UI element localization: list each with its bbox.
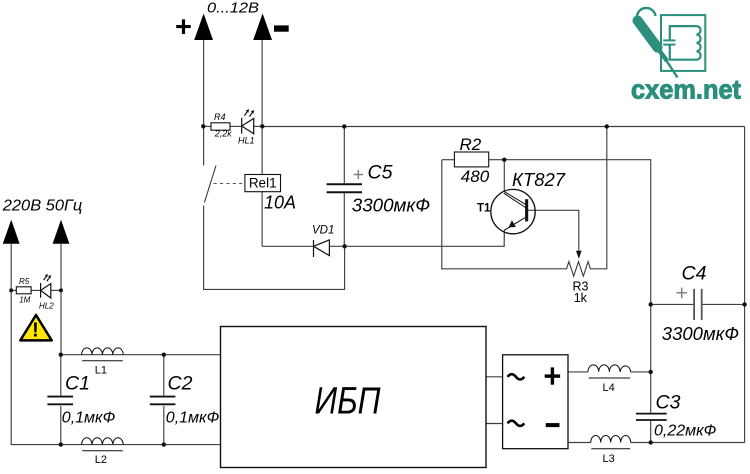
label L3: [603, 453, 615, 465]
label C4: [682, 263, 707, 285]
wire R2 right lead to collector node: [489, 159, 505, 161]
wire HL2 right lead: [51, 289, 61, 291]
bridge plus symbol: [545, 367, 560, 384]
svg-text:ИБП: ИБП: [315, 381, 381, 423]
wire R2 left lead: [442, 159, 455, 161]
terminal arrow minus 0...12V: [253, 14, 272, 41]
node dot C2 top: [162, 353, 166, 357]
wire bridge minus output to L3: [568, 442, 591, 444]
svg-text:С4: С4: [682, 263, 707, 285]
wire collector vertical: [503, 160, 505, 192]
inductor L4: [588, 365, 631, 378]
svg-text:0,1мкФ: 0,1мкФ: [166, 410, 220, 427]
svg-text:С1: С1: [65, 373, 90, 395]
bridge minus symbol: [546, 423, 560, 427]
wire bridge plus output to L4: [568, 371, 588, 373]
svg-text:0...12В: 0...12В: [207, 0, 259, 16]
node dot C1 bottom: [59, 442, 63, 446]
wire C4 left lead: [651, 303, 694, 305]
wire L3 to C3 node: [631, 442, 651, 444]
svg-text:С2: С2: [168, 373, 193, 395]
plus sign 0...12V: [175, 11, 192, 43]
node dot top rail R3: [605, 124, 609, 128]
svg-text:L2: L2: [95, 454, 107, 466]
label L4: [603, 382, 615, 394]
label 220V 50Hz: [2, 197, 83, 214]
svg-text:0,22мкФ: 0,22мкФ: [654, 422, 717, 439]
wire C2 vertical top: [163, 355, 165, 396]
wire switch bottom to VD1 node loop: [204, 206, 345, 290]
label R5: [19, 277, 30, 286]
svg-text:HL2: HL2: [39, 302, 54, 311]
svg-text:480: 480: [461, 167, 490, 186]
wire relay coil top lead: [261, 127, 263, 175]
wire VD1 anode rail to emitter: [329, 240, 504, 247]
wire C4 node to L4 node: [650, 304, 652, 372]
wire C5 bottom lead: [343, 193, 345, 246]
node dot C2 bottom: [162, 442, 166, 446]
wire C3 bottom lead: [650, 420, 652, 442]
label L1: [95, 365, 107, 377]
wire top rail HL1 to right edge: [262, 126, 744, 128]
wire C2 vertical bottom: [163, 406, 165, 445]
label VD1: [312, 225, 334, 237]
C5 polarity plus: [354, 170, 363, 179]
mains arrow left: [3, 220, 20, 244]
label Rel1: [249, 176, 277, 191]
wire C1 vertical bottom: [60, 406, 62, 445]
node dot C5 top: [342, 124, 346, 128]
node dot HL1 right: [260, 124, 264, 128]
value R5 1M: [19, 295, 30, 304]
bridge AC symbol top: [508, 374, 525, 379]
value C5 3300uF: [352, 194, 430, 215]
warning triangle: [20, 315, 51, 342]
wire collector node to C4 corner: [504, 160, 650, 305]
relay Rel1 box: [245, 175, 281, 192]
inductor L3: [591, 436, 631, 449]
svg-text:С3: С3: [656, 391, 681, 413]
terminal arrow plus 0...12V: [194, 14, 213, 41]
svg-text:220В 50Гц: 220В 50Гц: [2, 197, 83, 214]
wire VD1 cathode lead: [262, 245, 313, 247]
node dot VD1 right: [342, 244, 346, 248]
diode VD1: [314, 240, 330, 257]
wire HL2 node to L1 node: [60, 290, 62, 354]
wire R4 to HL1: [230, 125, 242, 127]
svg-text:3300мкФ: 3300мкФ: [352, 194, 430, 215]
resistor R2: [454, 152, 488, 167]
LED HL2: [41, 274, 52, 298]
inductor L2: [82, 438, 124, 451]
wire - terminal lead: [261, 40, 263, 127]
value C1 0.1uF: [62, 410, 116, 427]
dashed link relay to switch: [214, 183, 245, 185]
node dot R4 left: [201, 124, 205, 128]
wire UPS to bridge stub top: [486, 376, 503, 378]
wire switch top lead: [203, 127, 205, 166]
value relay 10A: [264, 193, 296, 213]
capacitor C3 plates: [636, 414, 667, 420]
minus sign 0...12V: [274, 25, 289, 31]
svg-text:1М: 1М: [19, 295, 30, 304]
wire + terminal lead: [203, 40, 205, 127]
wire L4 to C3 node: [631, 371, 651, 373]
node dot R5 left: [9, 288, 13, 292]
node dot C3 bottom: [649, 440, 653, 444]
svg-text:С5: С5: [368, 162, 393, 184]
label L2: [95, 454, 107, 466]
transistor T1 KT827: [491, 189, 535, 239]
label C2: [168, 373, 193, 395]
cxem.net logo graphic: [637, 8, 705, 78]
capacitor C5 plates: [327, 184, 362, 192]
capacitor C1 plates: [47, 397, 73, 405]
value C3 0.22uF: [654, 422, 717, 439]
inductor L1: [82, 348, 124, 361]
node dot C4 right: [742, 302, 746, 306]
value R3 1k: [574, 291, 588, 305]
wire right edge vertical: [744, 127, 746, 443]
label T1: [477, 203, 491, 215]
label KT827: [512, 169, 566, 190]
label R4: [214, 112, 226, 122]
node dot L1 left: [59, 353, 63, 357]
wire R5 to HL2: [31, 289, 40, 291]
R3 wiper arrow: [576, 251, 582, 259]
svg-text:КТ827: КТ827: [512, 169, 566, 190]
svg-text:Т1: Т1: [477, 203, 491, 215]
svg-text:2,2к: 2,2к: [214, 128, 233, 138]
wire C5 top lead: [343, 127, 345, 184]
wire base to R3 arrow vertical: [527, 210, 579, 251]
svg-text:3300мкФ: 3300мкФ: [662, 323, 739, 344]
node dot C4 left: [649, 302, 653, 306]
wire R2 left leg down to R3 rail: [442, 160, 565, 269]
wire L1 rail: [61, 354, 221, 356]
svg-text:R5: R5: [19, 277, 30, 286]
bridge AC symbol bottom: [508, 421, 525, 426]
capacitor C4 plates: [694, 289, 702, 320]
wire C4 right lead: [703, 303, 745, 305]
wire R3 right to top rail: [593, 127, 607, 269]
node dot collector: [502, 158, 506, 162]
value C4 3300uF: [662, 323, 739, 344]
label UPS IBP: [315, 381, 381, 423]
label C1: [65, 373, 90, 395]
label HL1: [238, 135, 255, 145]
mains arrow right: [53, 220, 70, 244]
wire L4 node to C3: [650, 372, 652, 413]
label 0...12V: [207, 0, 259, 16]
svg-text:+: +: [175, 11, 192, 43]
bridge rectifier box: [503, 355, 568, 449]
svg-text:!: !: [32, 320, 39, 342]
label R3: [573, 279, 589, 293]
cxem.net logo text: [631, 75, 741, 105]
wire mains left line: [11, 244, 220, 445]
wire UPS to bridge stub bottom: [486, 423, 503, 425]
svg-text:L3: L3: [603, 453, 615, 465]
svg-text:10А: 10А: [264, 193, 296, 213]
label R2: [460, 135, 482, 154]
node dot L4 C3: [649, 370, 653, 374]
svg-text:Rel1: Rel1: [249, 176, 277, 191]
value R2 480: [461, 167, 490, 186]
label HL2: [39, 302, 54, 311]
resistor R4: [211, 123, 230, 130]
resistor R5: [16, 287, 31, 294]
value R4 2.2k: [214, 128, 233, 138]
C4 polarity plus: [676, 288, 687, 299]
wire R5 left lead: [11, 289, 16, 291]
svg-text:R4: R4: [214, 112, 226, 122]
value C2 0.1uF: [166, 410, 220, 427]
resistor R3 zigzag: [564, 262, 592, 277]
switch contact S1: [204, 166, 216, 203]
wire R4 left lead: [203, 125, 211, 127]
node dot HL2 right: [59, 288, 63, 292]
wire mains right line: [60, 244, 62, 291]
capacitor C2 plates: [150, 397, 176, 405]
svg-text:R2: R2: [460, 135, 482, 154]
label C5: [368, 162, 393, 184]
wire C1 vertical top: [60, 355, 62, 396]
svg-text:0,1мкФ: 0,1мкФ: [62, 410, 116, 427]
svg-text:L4: L4: [603, 382, 615, 394]
wire bottom right rail: [651, 442, 745, 444]
UPS box IBP: [221, 327, 487, 468]
svg-text:cxem.net: cxem.net: [631, 75, 741, 105]
label C3: [656, 391, 681, 413]
LED HL1: [242, 109, 254, 134]
svg-text:1k: 1k: [574, 291, 588, 305]
svg-text:VD1: VD1: [312, 225, 334, 237]
wire relay coil bottom lead: [261, 192, 263, 247]
wire HL1 right lead: [254, 125, 262, 127]
svg-text:L1: L1: [95, 365, 107, 377]
svg-text:HL1: HL1: [238, 135, 255, 145]
